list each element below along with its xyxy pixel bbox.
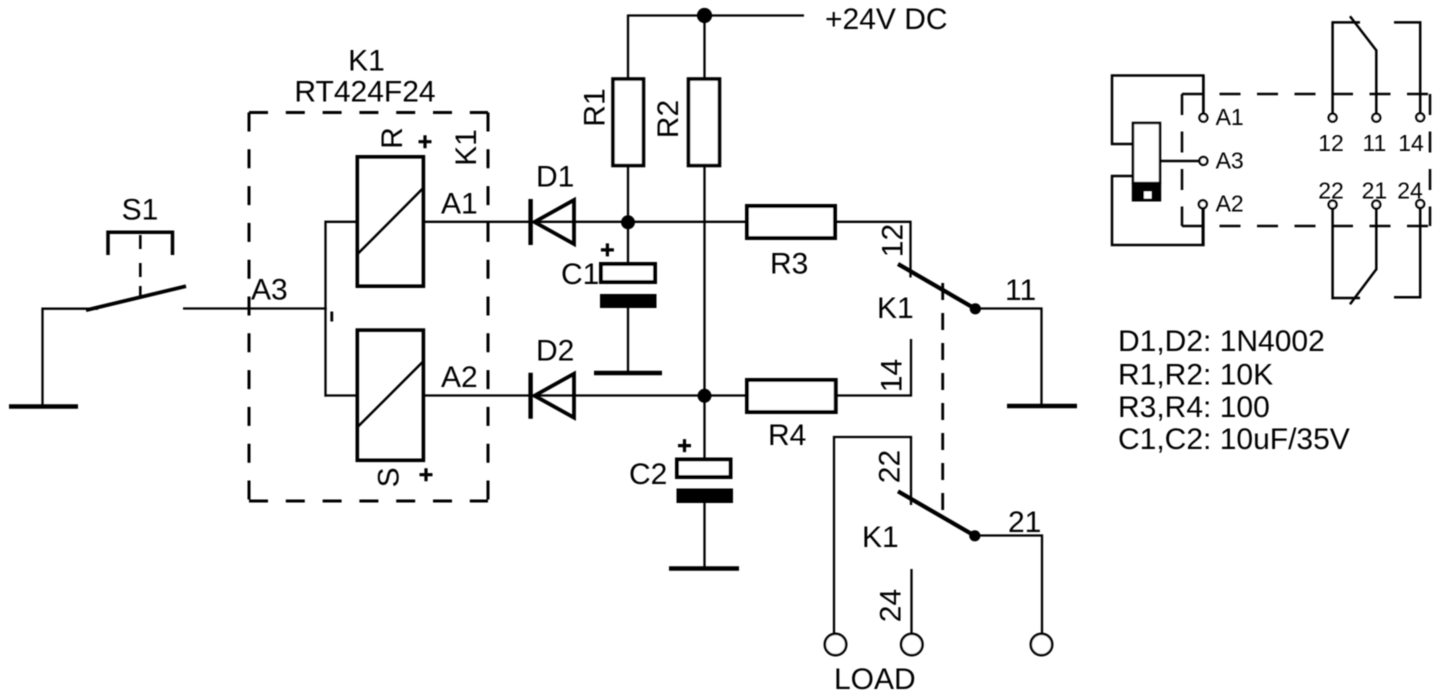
pinout: contact 12 lead [1331, 22, 1334, 114]
svg-text:R3,R4: 100: R3,R4: 100 [1118, 391, 1270, 424]
svg-text:A3: A3 [1216, 148, 1244, 174]
capacitor C2 bottom plate [677, 489, 734, 504]
svg-text:R1: R1 [579, 88, 612, 126]
capacitor C2 plus mark [678, 439, 691, 452]
capacitor C1 plus mark [601, 243, 614, 256]
wire D1 to R3 row [574, 221, 747, 223]
pinout: pin A2 circle [1199, 200, 1207, 208]
junction dot A2/R2/C2 [698, 389, 712, 403]
contact common dot 11 [970, 303, 981, 314]
pinout: lower right bracket [1394, 208, 1420, 297]
pinout: A3 lead [1160, 160, 1199, 163]
svg-text:11: 11 [1362, 130, 1386, 156]
wire 22 bracket from LOAD [834, 437, 911, 634]
wire R1 top lead [627, 15, 629, 81]
A3 minus polarity tick [330, 312, 333, 322]
svg-text:S: S [373, 467, 406, 487]
switch S1 actuator bracket [108, 232, 173, 255]
pinout: pin A1 circle [1199, 114, 1207, 122]
relay coil S (set) box [357, 330, 423, 460]
capacitor C1 bottom plate [600, 294, 657, 308]
capacitor C1 top plate [601, 264, 655, 282]
svg-text:+24V DC: +24V DC [825, 3, 948, 36]
svg-text:K1: K1 [348, 45, 385, 78]
svg-text:12: 12 [877, 224, 910, 257]
pinout: pin A3 circle [1199, 157, 1207, 165]
diode D2 [531, 373, 574, 419]
svg-text:A1: A1 [1216, 104, 1244, 130]
relay coil R diagonal [358, 188, 423, 254]
wire R4 to contact 14 [836, 394, 911, 396]
svg-text:S1: S1 [122, 194, 159, 227]
resistor R1 [613, 79, 644, 166]
svg-text:C1: C1 [561, 258, 599, 291]
wire stub to coil S [325, 394, 359, 396]
svg-text:22: 22 [874, 450, 907, 483]
wire stub to coil R [325, 221, 359, 223]
svg-text:D1: D1 [536, 161, 574, 194]
resistor R3 [747, 206, 835, 238]
wire C2 bottom lead [703, 502, 705, 568]
svg-text:A2: A2 [1216, 191, 1244, 217]
wire C1 bottom lead [627, 307, 629, 373]
pinout: upper right bracket [1394, 22, 1420, 113]
capacitor C2 top plate [677, 460, 731, 478]
wire C2 top lead [703, 396, 705, 462]
wire R2 bottom lead [703, 166, 705, 397]
pinout: pin A2 lead [1202, 208, 1205, 245]
switch S1 actuator dashed link [139, 235, 142, 298]
svg-text:K1: K1 [877, 292, 914, 325]
relay coil S plus mark [420, 468, 433, 481]
wire S1 left terminal [43, 309, 99, 405]
terminal 14 stub [910, 339, 912, 397]
pinout: contact 11 lead [1375, 50, 1378, 114]
svg-text:14: 14 [876, 359, 909, 392]
pinout: pin 22 circle [1329, 201, 1337, 209]
wire coil R to diode D1 [423, 221, 531, 223]
pinout: upper lever horizontal [1332, 21, 1361, 24]
svg-text:21: 21 [1362, 178, 1388, 204]
wire R2 top lead [703, 16, 705, 81]
svg-text:21: 21 [1008, 506, 1041, 539]
contact K1 upper lever [898, 264, 975, 309]
pinout: coil magnet block [1132, 183, 1161, 202]
relay coil S diagonal [358, 362, 423, 427]
ground at S1 [9, 404, 78, 409]
pinout: coil magnet window [1144, 192, 1152, 199]
svg-text:R2: R2 [652, 100, 685, 138]
wire R1 bottom lead [627, 166, 629, 223]
svg-text:C1,C2: 10uF/35V: C1,C2: 10uF/35V [1118, 423, 1350, 456]
svg-text:RT424F24: RT424F24 [294, 76, 435, 109]
svg-text:A1: A1 [441, 188, 478, 221]
wire coil S to diode D2 [423, 394, 531, 396]
pinout: pin 21 circle [1372, 201, 1380, 209]
relay coil R (reset) box [357, 157, 423, 286]
svg-text:K1: K1 [862, 521, 899, 554]
ground at C1 [594, 371, 662, 376]
mechanical link dashed line [941, 283, 944, 513]
svg-text:D2: D2 [536, 335, 574, 368]
pinout: lower lever diagonal [1350, 269, 1376, 304]
wire coil branch vertical [324, 221, 326, 397]
resistor R4 [747, 380, 836, 412]
junction dot on +24V rail [697, 8, 712, 23]
relay K1 dashed box [249, 113, 488, 502]
pinout: pin 11 circle [1372, 114, 1380, 122]
wire S1 to A3 [183, 307, 327, 309]
junction dot A1/R1/C1 [621, 215, 635, 229]
wire D2 to R4 row [574, 394, 747, 396]
pinout: upper lever diagonal [1350, 16, 1376, 50]
svg-text:24: 24 [875, 589, 908, 622]
terminal 24 stub [910, 569, 912, 634]
svg-text:12: 12 [1318, 130, 1344, 156]
svg-text:A3: A3 [251, 274, 288, 307]
svg-text:11: 11 [1005, 274, 1036, 307]
pinout: relay body outline [1112, 76, 1203, 246]
svg-text:22: 22 [1318, 178, 1344, 204]
svg-text:R3: R3 [770, 248, 808, 281]
LOAD terminal circle middle [901, 634, 922, 655]
svg-text:D1,D2: 1N4002: D1,D2: 1N4002 [1118, 325, 1325, 358]
wire +24V top rail [628, 14, 804, 16]
pinout: pin 14 circle [1416, 113, 1424, 121]
svg-text:R1,R2: 10K: R1,R2: 10K [1118, 359, 1273, 392]
terminal 12 stub [909, 221, 911, 278]
svg-text:R: R [376, 127, 409, 149]
relay coil R plus mark [419, 135, 432, 148]
pinout: dashed pin-field box [1182, 94, 1430, 226]
pinout: coil body [1133, 123, 1160, 183]
LOAD terminal circle right [1031, 634, 1052, 655]
svg-text:LOAD: LOAD [834, 663, 916, 696]
contact common dot 21 [969, 530, 980, 541]
pinout: lower lever horizontal [1332, 297, 1361, 300]
pinout: contact 21 lead [1375, 208, 1378, 270]
svg-text:C2: C2 [629, 458, 667, 491]
svg-text:14: 14 [1398, 130, 1424, 156]
wire C1 top lead [627, 222, 629, 265]
svg-text:A2: A2 [441, 361, 478, 394]
LOAD terminal circle left [825, 634, 846, 655]
pinout: pin 24 circle [1416, 200, 1424, 208]
pinout: pin A1 lead [1202, 76, 1205, 115]
pinout: pin 12 circle [1329, 114, 1337, 122]
resistor R2 [689, 79, 720, 166]
wire R3 to contact 12 [835, 221, 911, 223]
ground at 11 [1007, 404, 1077, 409]
svg-text:R4: R4 [768, 419, 806, 452]
wire 21 to load [975, 536, 1042, 635]
diode D1 [531, 199, 574, 245]
ground at C2 [669, 566, 739, 571]
wire 11 to ground [975, 309, 1041, 406]
pinout: contact 22 lead [1331, 208, 1334, 299]
switch S1 lever [86, 286, 186, 310]
svg-text:K1: K1 [450, 129, 483, 166]
contact K1 lower lever [898, 491, 975, 536]
